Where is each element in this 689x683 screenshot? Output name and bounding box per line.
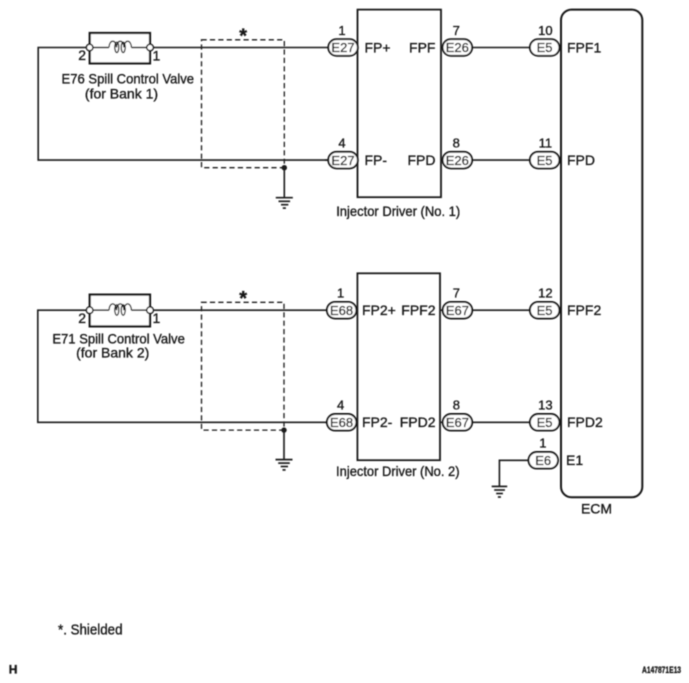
svg-text:1: 1 [153, 48, 161, 64]
svg-text:E67: E67 [446, 415, 469, 430]
svg-text:E68: E68 [330, 415, 353, 430]
svg-text:2: 2 [78, 47, 86, 63]
svg-text:8: 8 [453, 136, 460, 151]
spill control valve E76 [86, 33, 153, 63]
svg-text:E5: E5 [537, 415, 553, 430]
connector E26 pin 7 [443, 23, 473, 56]
svg-text:10: 10 [538, 23, 552, 38]
svg-text:E67: E67 [446, 303, 469, 318]
svg-text:FPD2: FPD2 [400, 414, 436, 430]
wire: row2 segment under E27 [325, 159, 358, 161]
terminal 2 of E76 [86, 44, 93, 51]
junction (shield1 drain) [282, 165, 287, 170]
svg-text:FPD2: FPD2 [567, 414, 603, 430]
svg-text:E26: E26 [446, 40, 469, 55]
svg-text:A147871E13: A147871E13 [642, 665, 681, 675]
svg-text:1: 1 [539, 436, 546, 451]
svg-text:1: 1 [338, 23, 345, 38]
wire: E6 to ground [499, 460, 530, 486]
wire: shield2 drain to ground [283, 430, 285, 460]
svg-text:E6: E6 [535, 453, 551, 468]
svg-text:FP2-: FP2- [362, 414, 393, 430]
svg-text:FPF2: FPF2 [401, 302, 435, 318]
wire: bank1 loop from valve pin2 down to row2 [38, 48, 330, 161]
svg-text:E5: E5 [537, 153, 553, 168]
svg-text:*: * [239, 288, 247, 310]
connector E67 pin 7 [443, 286, 473, 319]
svg-text:E76 Spill Control Valve: E76 Spill Control Valve [62, 71, 195, 87]
svg-text:7: 7 [453, 23, 460, 38]
svg-text:(for Bank 2): (for Bank 2) [76, 345, 149, 361]
wire: row3 valve pin1 to injector driver No.2 [150, 309, 357, 311]
svg-text:8: 8 [453, 398, 460, 413]
svg-text:*. Shielded: *. Shielded [58, 623, 123, 639]
svg-text:E27: E27 [331, 153, 354, 168]
svg-text:FPF1: FPF1 [567, 39, 601, 55]
terminal 1 of E76 [147, 44, 154, 51]
connector E6 pin 1 [529, 436, 559, 469]
connector E67 pin 8 [443, 398, 473, 431]
wire: row1 E26 to ECM [441, 47, 561, 49]
svg-text:4: 4 [338, 136, 345, 151]
svg-text:FP-: FP- [365, 152, 388, 168]
svg-text:11: 11 [539, 136, 553, 151]
svg-text:FP+: FP+ [365, 39, 391, 55]
wire: shield1 drain to ground [283, 168, 285, 198]
connector E5 pin 12 [530, 286, 560, 319]
svg-text:E5: E5 [537, 303, 553, 318]
connector E27 pin 4 [328, 136, 358, 169]
junction (shield2 drain) [281, 427, 286, 432]
shield (dashed) bank2 [202, 302, 285, 430]
svg-text:H: H [9, 662, 18, 676]
svg-text:(for Bank 1): (for Bank 1) [85, 86, 158, 102]
inductor coil of E76 [109, 41, 131, 47]
svg-text:E26: E26 [446, 153, 469, 168]
svg-text:FPD: FPD [408, 152, 436, 168]
svg-text:Injector Driver (No. 1): Injector Driver (No. 1) [336, 203, 460, 219]
svg-text:1: 1 [337, 286, 344, 301]
ground (shield2) [276, 460, 293, 470]
svg-text:E27: E27 [331, 40, 354, 55]
svg-text:2: 2 [78, 310, 86, 326]
connector E26 pin 8 [443, 136, 473, 169]
ECM [561, 10, 642, 498]
wire: row1 valve pin1 to injector driver No.1 FP+ input [150, 47, 358, 49]
svg-text:1: 1 [153, 310, 161, 326]
wire: row2 E26 to ECM [441, 159, 561, 161]
terminal 1 of E71 [147, 307, 154, 314]
spill control valve E71 [86, 295, 153, 327]
svg-text:E1: E1 [566, 452, 583, 468]
svg-text:FP2+: FP2+ [362, 302, 396, 318]
svg-text:13: 13 [538, 398, 552, 413]
terminal 2 of E71 [86, 307, 93, 314]
svg-text:12: 12 [538, 286, 552, 301]
shield (dashed) bank1 [202, 40, 285, 168]
svg-text:E5: E5 [537, 40, 553, 55]
inductor coil of E71 [109, 304, 131, 310]
svg-text:7: 7 [453, 286, 460, 301]
wire: row3 E67 to ECM [440, 309, 561, 311]
injector driver No.1 [358, 10, 442, 198]
svg-text:FPF2: FPF2 [567, 302, 601, 318]
connector E5 pin 10 [530, 23, 560, 56]
svg-text:4: 4 [337, 398, 344, 413]
connector E5 pin 11 [530, 136, 560, 169]
wire: row4 segment under E68 [325, 421, 357, 423]
connector E68 pin 4 [327, 398, 357, 431]
ground (shield1) [276, 198, 293, 208]
injector driver No.2 [357, 273, 440, 460]
svg-text:FPD: FPD [567, 152, 595, 168]
svg-text:FPF: FPF [409, 39, 435, 55]
wire: row4 E67 to ECM [440, 421, 561, 423]
svg-text:ECM: ECM [581, 501, 612, 517]
svg-text:Injector Driver (No. 2): Injector Driver (No. 2) [336, 463, 460, 479]
svg-text:*: * [239, 26, 247, 48]
connector E68 pin 1 [327, 286, 357, 319]
ground (E6 / E1 circuit) [492, 486, 508, 497]
wire: bank2 loop from valve pin2 down to row4 [38, 310, 330, 422]
svg-text:E68: E68 [330, 303, 353, 318]
connector E5 pin 13 [530, 398, 560, 431]
connector E27 pin 1 [328, 23, 358, 56]
